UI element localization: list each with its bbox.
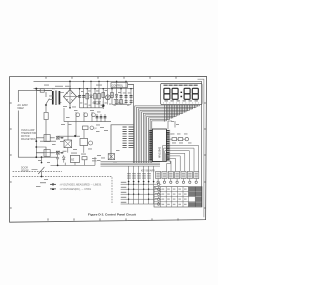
- matrix row labels: [121, 182, 127, 203]
- resistor R7: [120, 100, 123, 104]
- wires left mid: [36, 138, 46, 153]
- legend row 2: [50, 188, 56, 190]
- transistor Q2: [90, 126, 94, 130]
- driver IC U2: [111, 125, 134, 160]
- resistor R2: [94, 94, 97, 99]
- node big junction: [102, 104, 105, 107]
- diode D7: [98, 102, 101, 104]
- dashed boundary upper: [13, 170, 62, 172]
- wire: left drop: [35, 89, 37, 158]
- table header diagonal: [154, 187, 161, 192]
- wire drops to mid rail: [64, 108, 105, 122]
- capacitor C8: [56, 155, 59, 163]
- resistor R4: [102, 93, 105, 98]
- svg-text:OVEN LAMP: OVEN LAMP: [21, 129, 35, 132]
- wire right components: [168, 121, 185, 139]
- wire: lower power bus: [80, 101, 104, 109]
- capacitor C2: [82, 96, 85, 98]
- bridge rectifier D1: [63, 81, 79, 107]
- display sub labels: [165, 100, 198, 101]
- capacitor C7: [130, 101, 133, 103]
- capacitor bank mid: [96, 116, 107, 118]
- wire: power rail: [34, 88, 134, 90]
- zener D2: [90, 95, 93, 98]
- switch S1 interlock: [40, 92, 56, 141]
- display tick row: [164, 102, 199, 103]
- table outline: [154, 187, 202, 207]
- wire vertical chains power section: [80, 89, 131, 108]
- misc tiny value labels: [36, 90, 192, 187]
- svg-text:: A VOLTAGES(DC), － CHAS: : A VOLTAGES(DC), － CHAS: [59, 188, 91, 191]
- svg-text:BZ: BZ: [71, 159, 75, 162]
- LED row: [76, 113, 95, 117]
- matrix grid: [121, 166, 156, 204]
- svg-text:MAGNETRON: MAGNETRON: [21, 138, 36, 141]
- resistor R1: [86, 94, 89, 99]
- frame tick marks: [10, 77, 206, 221]
- border frame: [10, 76, 207, 222]
- contact pair lower: [50, 151, 63, 155]
- buzzer BZ2 circle: [185, 137, 188, 140]
- wire: AC hot lead: [18, 91, 52, 102]
- svg-text:Q2: Q2: [94, 128, 98, 130]
- capacitor C3: [120, 96, 123, 98]
- triac box: [64, 140, 72, 148]
- transistor Q3: [89, 141, 93, 145]
- bus staircase to connectors: [163, 146, 199, 172]
- transformer T1: [53, 91, 60, 106]
- resistor R12: [82, 157, 87, 160]
- wire mid rail: [64, 121, 111, 123]
- dashed boundary lower: [13, 177, 112, 203]
- bus horizontal lines: [101, 162, 161, 167]
- microcontroller U1: [152, 129, 166, 161]
- wire mid join: [45, 120, 47, 158]
- wire: AC neutral lead: [18, 111, 57, 158]
- matrix junction dots: [128, 181, 155, 200]
- U1 left pins: [149, 131, 152, 160]
- svg-text:MOTOR: MOTOR: [21, 136, 30, 138]
- resistor R5: [111, 93, 114, 98]
- buzzer BZ box: [70, 155, 79, 162]
- resistor R10: [83, 126, 89, 130]
- matrix column labels: [127, 173, 151, 178]
- wire buzzer bus: [51, 157, 96, 165]
- switch door: [38, 157, 44, 176]
- wire transformer secondary: [59, 93, 64, 103]
- fuse F1: [36, 89, 52, 92]
- diode D5: [62, 155, 65, 163]
- svg-text:60HZ: 60HZ: [17, 106, 24, 110]
- transistor Q1: [105, 95, 110, 100]
- svg-text:Figure D-2. Control Panel Circ: Figure D-2. Control Panel Circuit: [88, 213, 136, 217]
- capacitor C4: [125, 96, 128, 98]
- node bridge dots: [69, 81, 71, 109]
- capacitor C5: [130, 96, 133, 98]
- U1 pin shading: [149, 130, 153, 161]
- node rail dots: [69, 81, 132, 90]
- wire mid lower: [57, 122, 84, 140]
- relay RY2 box: [44, 135, 50, 142]
- legend row 1: [50, 183, 56, 185]
- resistor R6: [115, 100, 118, 104]
- display header text: [164, 85, 198, 86]
- relay RY3 box: [44, 150, 50, 157]
- connector box row: [156, 172, 199, 184]
- resistor R3: [98, 94, 101, 99]
- svg-text:DOOR: DOOR: [21, 167, 28, 169]
- display digits 88:88: [164, 88, 198, 99]
- svg-text:KEY BOARD: KEY BOARD: [141, 170, 155, 173]
- tiny labels above transformer: [44, 85, 102, 87]
- zener D3: [115, 95, 118, 98]
- svg-text:: A VOLTAGES, MEASURED － LINE: : A VOLTAGES, MEASURED － LINE B.: [59, 184, 102, 187]
- zener D6: [94, 102, 97, 104]
- resistor R21: [178, 138, 183, 141]
- label box CONTROL UNIT: [111, 83, 128, 88]
- display unit box: [161, 83, 202, 104]
- wire door to bus: [32, 168, 38, 170]
- capacitor C1: [78, 96, 81, 98]
- inner border line right: [198, 79, 204, 217]
- matrix switch circles: [156, 182, 161, 205]
- crystal X1: [108, 154, 114, 160]
- value label smudges: [80, 103, 129, 106]
- relay RY1 box: [80, 139, 88, 146]
- contact pair upper: [50, 136, 63, 140]
- wire: section divider: [128, 85, 134, 164]
- wire: top rail: [34, 81, 202, 207]
- extra links power: [84, 81, 126, 88]
- table cell text smudges: [155, 188, 187, 205]
- table grid: [154, 187, 202, 207]
- table dark cells: [189, 187, 202, 207]
- U1 right pins: [166, 131, 169, 160]
- capacitor C6: [125, 101, 128, 103]
- svg-text:THERMISTOR: THERMISTOR: [21, 133, 36, 135]
- node junction dots left: [35, 88, 42, 159]
- bus nested bends to display: [135, 105, 200, 163]
- resistor R20: [172, 138, 177, 141]
- tiny labels buzzer row: [56, 151, 97, 161]
- wire lower run: [36, 146, 84, 153]
- node dot mid: [74, 135, 76, 137]
- svg-text:CONTROL: CONTROL: [112, 85, 124, 87]
- svg-text:MN15842: MN15842: [158, 146, 162, 158]
